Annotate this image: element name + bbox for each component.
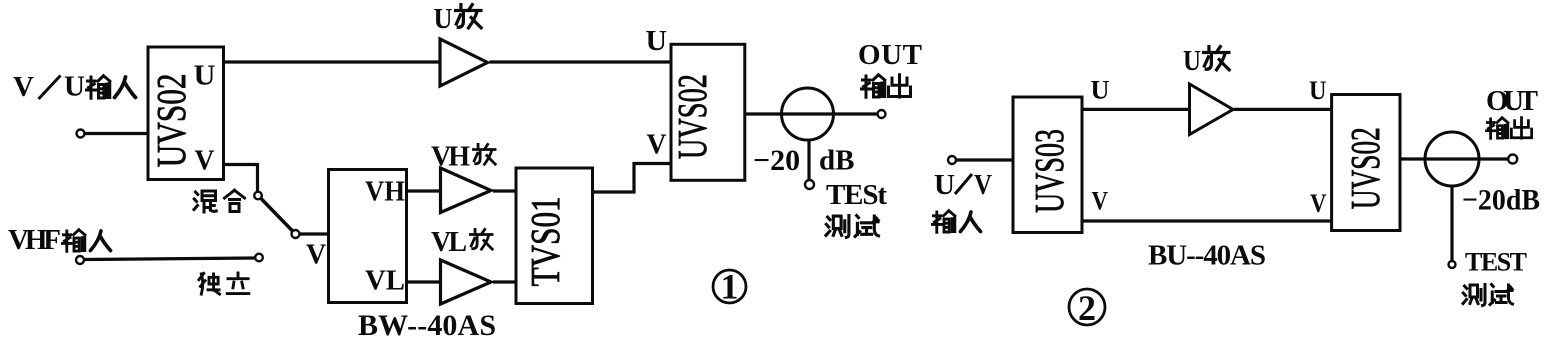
svg-text:UVS02: UVS02	[148, 73, 194, 167]
svg-text:U: U	[934, 169, 955, 201]
svg-text:U: U	[646, 25, 668, 57]
svg-text:U: U	[434, 3, 453, 35]
svg-text:V: V	[195, 146, 215, 177]
svg-text:VH: VH	[431, 142, 470, 173]
svg-text:−20dB: −20dB	[1462, 184, 1540, 217]
svg-text:VH: VH	[365, 176, 405, 208]
svg-text:TESt: TESt	[826, 179, 887, 211]
svg-text:V: V	[974, 169, 992, 201]
svg-text:TVS01: TVS01	[522, 196, 568, 286]
svg-text:VL: VL	[431, 227, 467, 258]
svg-text:OUT: OUT	[858, 39, 922, 71]
svg-text:BW--40AS: BW--40AS	[358, 309, 496, 342]
svg-text:U: U	[1309, 76, 1327, 105]
svg-text:U: U	[1091, 76, 1110, 105]
svg-text:dB: dB	[819, 145, 854, 177]
svg-text:U: U	[1183, 45, 1201, 77]
svg-text:V: V	[1092, 187, 1109, 216]
svg-text:2: 2	[1078, 288, 1096, 328]
svg-text:V: V	[13, 71, 34, 103]
svg-text:1: 1	[721, 267, 739, 307]
svg-text:VHF: VHF	[8, 224, 61, 256]
svg-text:U: U	[194, 60, 216, 92]
svg-text:UVS03: UVS03	[1026, 129, 1072, 213]
svg-text:V: V	[306, 240, 326, 271]
svg-text:VL: VL	[365, 265, 405, 297]
svg-text:UVS02: UVS02	[669, 74, 715, 159]
svg-text:TEST: TEST	[1465, 248, 1527, 277]
svg-text:OUT: OUT	[1486, 85, 1538, 117]
svg-text:−20: −20	[753, 144, 800, 177]
svg-text:UVS02: UVS02	[1342, 127, 1388, 209]
svg-text:V: V	[647, 129, 667, 161]
svg-text:BU--40AS: BU--40AS	[1148, 240, 1266, 272]
svg-text:U: U	[64, 71, 85, 103]
svg-text:V: V	[1310, 189, 1327, 218]
